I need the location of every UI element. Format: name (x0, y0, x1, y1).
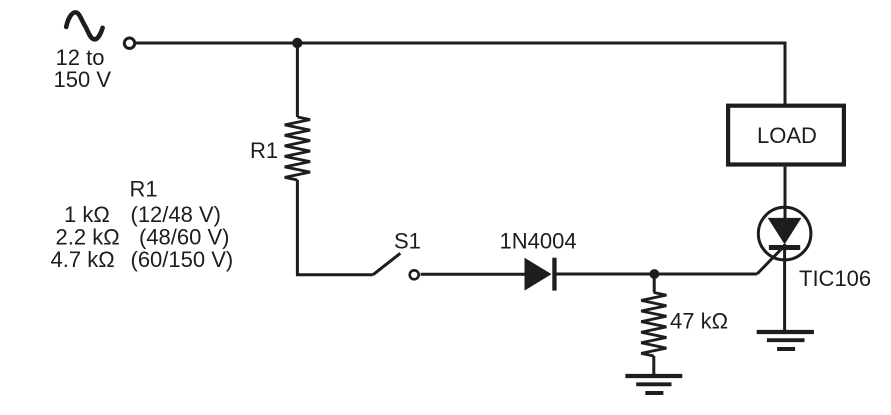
svg-text:(48/60 V): (48/60 V) (139, 224, 230, 249)
svg-text:(12/48 V): (12/48 V) (131, 202, 222, 227)
svg-text:(60/150 V): (60/150 V) (131, 247, 234, 272)
svg-text:LOAD: LOAD (757, 123, 817, 148)
svg-text:47 kΩ: 47 kΩ (670, 309, 728, 334)
svg-text:S1: S1 (394, 228, 421, 253)
svg-text:R1: R1 (130, 177, 158, 202)
svg-text:2.2 kΩ: 2.2 kΩ (56, 224, 120, 249)
svg-text:TIC106: TIC106 (799, 266, 871, 291)
svg-text:1N4004: 1N4004 (500, 228, 577, 253)
svg-text:150 V: 150 V (54, 67, 112, 92)
svg-text:4.7 kΩ: 4.7 kΩ (51, 247, 115, 272)
svg-text:R1: R1 (250, 138, 278, 163)
svg-text:1 kΩ: 1 kΩ (64, 202, 110, 227)
